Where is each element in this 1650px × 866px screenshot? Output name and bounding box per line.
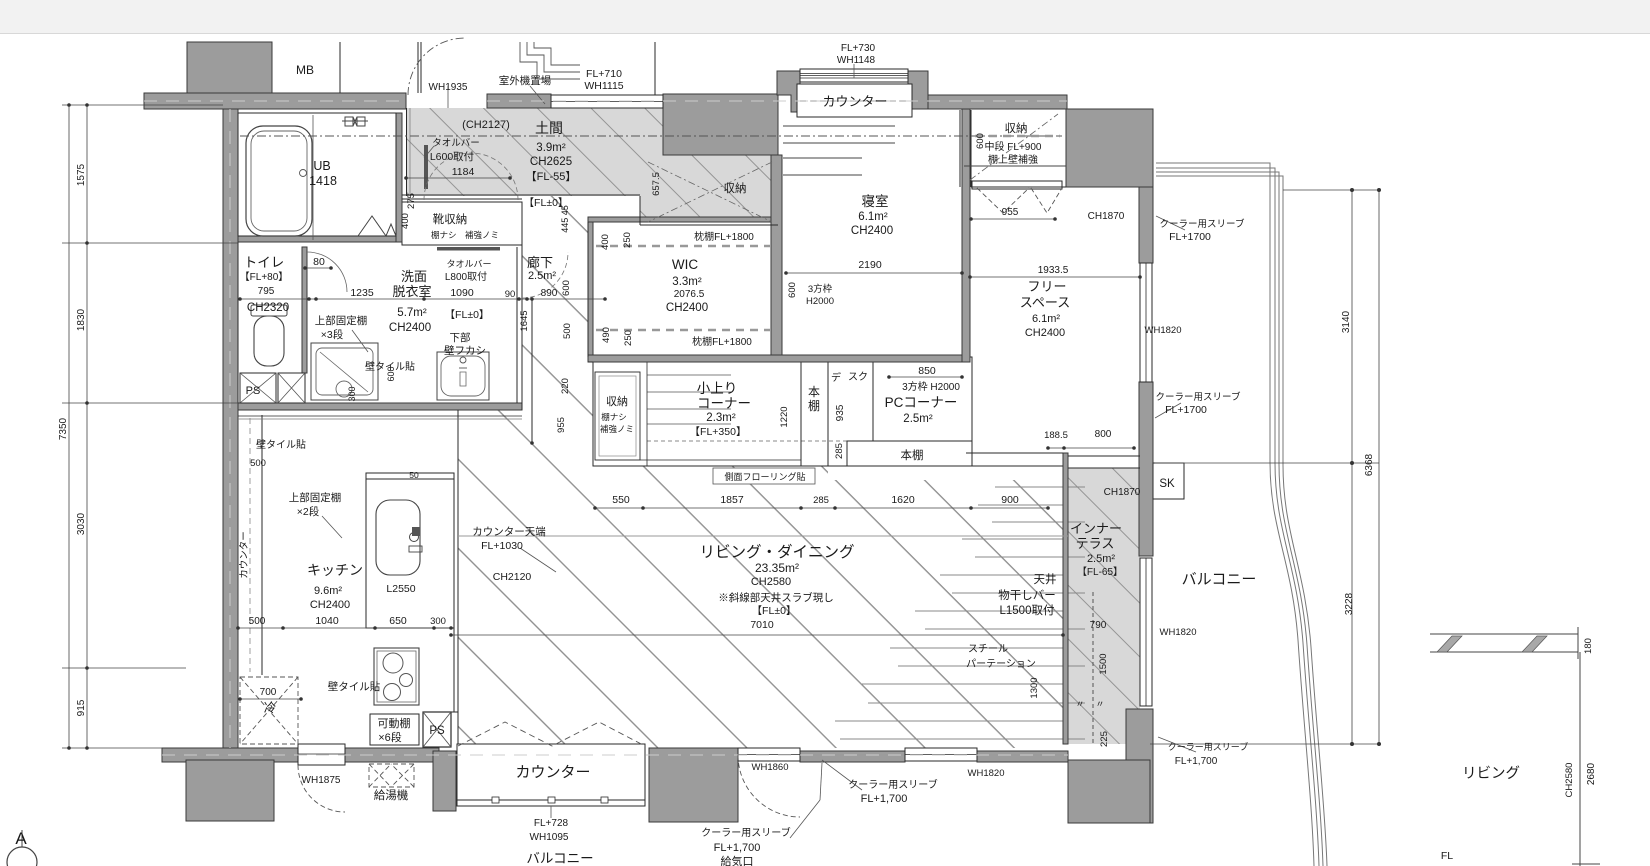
- svg-text:パーテーション: パーテーション: [966, 658, 1036, 670]
- UB room: [238, 113, 396, 236]
- svg-text:400: 400: [400, 213, 411, 229]
- SK box: [1153, 463, 1184, 499]
- svg-text:1040: 1040: [315, 615, 339, 627]
- svg-text:6.1m²: 6.1m²: [1032, 313, 1060, 325]
- kitchen sink: [376, 500, 420, 575]
- svg-text:テラス: テラス: [1076, 536, 1115, 551]
- counter jamb left: [777, 71, 800, 112]
- freespace bottom: [966, 452, 1063, 454]
- svg-text:下部: 下部: [450, 331, 471, 344]
- svg-text:285: 285: [813, 495, 829, 506]
- svg-text:890: 890: [541, 288, 558, 299]
- bedroom right wall: [962, 109, 970, 362]
- svg-text:(CH2127): (CH2127): [462, 119, 510, 131]
- svg-text:3方枠 H2000: 3方枠 H2000: [902, 380, 960, 393]
- kitchen bottom return: [444, 711, 458, 713]
- stove: [374, 648, 419, 705]
- 7010: [451, 634, 1063, 636]
- svg-text:土間: 土間: [535, 120, 563, 136]
- svg-text:90: 90: [505, 289, 516, 300]
- svg-text:445 45: 445 45: [560, 205, 570, 233]
- WALLS: [144, 42, 1153, 823]
- svg-text:1300: 1300: [1029, 677, 1040, 698]
- svg-text:タオルバー: タオルバー: [446, 259, 491, 269]
- svg-text:バルコニー: バルコニー: [526, 851, 593, 866]
- svg-text:廊下: 廊下: [527, 255, 553, 270]
- bedroom closet walls: [959, 110, 961, 187]
- fridge dashed: [240, 677, 298, 744]
- svg-text:壁タイル貼: 壁タイル貼: [256, 438, 306, 451]
- svg-text:180: 180: [1583, 638, 1594, 654]
- svg-text:250: 250: [622, 232, 633, 248]
- WIC walls: [588, 217, 778, 222]
- freespace bottom walls: [1063, 453, 1068, 744]
- DASHED LINES: [240, 135, 1062, 137]
- svg-text:小上り: 小上り: [697, 381, 738, 396]
- svg-text:WIC: WIC: [672, 257, 698, 272]
- svg-text:WH1820: WH1820: [968, 768, 1005, 779]
- svg-text:1418: 1418: [309, 174, 337, 188]
- top 1184: [406, 177, 510, 179]
- 80: [305, 267, 331, 269]
- svg-text:600: 600: [561, 280, 572, 296]
- svg-text:SK: SK: [1159, 478, 1175, 490]
- svg-text:80: 80: [313, 256, 325, 268]
- svg-text:棚: 棚: [808, 398, 820, 413]
- svg-text:×3段: ×3段: [321, 328, 344, 341]
- svg-text:6.1m²: 6.1m²: [858, 211, 888, 223]
- svg-text:デ: デ: [831, 371, 841, 384]
- svg-text:クーラー用スリーブ: クーラー用スリーブ: [848, 778, 937, 791]
- svg-text:FL+710: FL+710: [586, 68, 622, 80]
- svg-text:900: 900: [1001, 494, 1019, 506]
- svg-text:600: 600: [787, 282, 798, 298]
- washroom/toilet outer: [237, 242, 239, 403]
- svg-text:壁タイル貼: 壁タイル貼: [328, 680, 381, 693]
- svg-text:L1500取付: L1500取付: [1000, 604, 1055, 617]
- svg-text:CH2625: CH2625: [530, 156, 572, 168]
- HATCH: [406, 108, 778, 225]
- svg-text:脱衣室: 脱衣室: [392, 284, 431, 299]
- svg-text:上部固定棚: 上部固定棚: [289, 491, 342, 504]
- svg-text:3.3m²: 3.3m²: [672, 276, 702, 288]
- UB door corner: [358, 216, 396, 236]
- PS box bottom: [423, 712, 451, 747]
- svg-text:クーラー用スリーブ: クーラー用スリーブ: [1156, 391, 1241, 403]
- svg-text:物干しバー: 物干しバー: [998, 588, 1056, 602]
- mid row: [595, 507, 1048, 509]
- svg-text:洗面: 洗面: [401, 269, 427, 284]
- svg-text:400: 400: [600, 234, 611, 250]
- svg-text:H2000: H2000: [806, 296, 834, 307]
- svg-text:WH1095: WH1095: [530, 832, 569, 843]
- svg-text:FL+1700: FL+1700: [1165, 404, 1207, 416]
- doma bottom lines: [402, 194, 640, 196]
- svg-text:靴収納: 靴収納: [433, 212, 468, 226]
- svg-text:カウンター: カウンター: [239, 531, 250, 579]
- svg-text:×6段: ×6段: [378, 730, 402, 744]
- svg-text:490: 490: [601, 327, 612, 343]
- svg-text:955: 955: [556, 417, 567, 433]
- svg-text:L600取付: L600取付: [430, 150, 474, 163]
- PS boxes left: [240, 373, 276, 403]
- svg-text:本棚: 本棚: [901, 448, 924, 462]
- svg-text:2190: 2190: [858, 259, 882, 271]
- svg-text:3140: 3140: [1341, 310, 1352, 333]
- svg-text:寝室: 寝室: [862, 193, 889, 209]
- svg-text:1184: 1184: [452, 166, 475, 178]
- svg-text:スク: スク: [848, 371, 868, 383]
- svg-text:カウンター: カウンター: [822, 94, 887, 109]
- kitchen counter back edge: [238, 415, 522, 417]
- 188.5 800: [1048, 447, 1134, 449]
- south bands right: [800, 751, 905, 762]
- genkan storage bottom: [640, 224, 778, 226]
- svg-text:WH1115: WH1115: [584, 80, 623, 92]
- svg-text:300: 300: [347, 386, 357, 401]
- left outer wall: [223, 109, 238, 751]
- svg-text:FL+1030: FL+1030: [481, 540, 523, 552]
- svg-text:CH2580: CH2580: [751, 576, 791, 588]
- block top-left: [187, 42, 272, 93]
- svg-text:1575: 1575: [76, 163, 87, 186]
- svg-text:275: 275: [406, 193, 417, 209]
- svg-text:1933.5: 1933.5: [1038, 265, 1069, 276]
- svg-text:インナー: インナー: [1070, 521, 1122, 536]
- right wall block bottom: [1126, 709, 1153, 823]
- svg-text:WH1860: WH1860: [752, 762, 789, 773]
- svg-text:PS: PS: [429, 725, 445, 737]
- svg-text:3.9m²: 3.9m²: [536, 142, 566, 154]
- svg-text:A: A: [15, 829, 27, 848]
- svg-text:657.5: 657.5: [651, 172, 662, 196]
- svg-text:220: 220: [560, 378, 571, 394]
- svg-text:※斜線部天井スラブ現し: ※斜線部天井スラブ現し: [718, 591, 834, 604]
- terrace drying bar dashed: [1092, 592, 1094, 746]
- block south right: [1068, 760, 1150, 823]
- svg-text:795: 795: [258, 286, 275, 297]
- block B2 genkan: [663, 94, 778, 155]
- svg-text:スペース: スペース: [1020, 295, 1070, 310]
- svg-text:CH2120: CH2120: [493, 571, 532, 583]
- svg-text:中段 FL+900: 中段 FL+900: [985, 140, 1042, 153]
- hall wall (washroom right): [516, 247, 518, 403]
- svg-text:冷: 冷: [264, 701, 277, 715]
- svg-text:L800取付: L800取付: [445, 270, 487, 283]
- svg-text:1500: 1500: [1098, 653, 1109, 674]
- 955: [971, 218, 1055, 220]
- svg-text:250: 250: [623, 330, 634, 346]
- right wall seg1: [1139, 187, 1153, 263]
- svg-text:FL+1,700: FL+1,700: [714, 842, 761, 854]
- svg-text:スチール: スチール: [968, 643, 1008, 655]
- svg-text:フリー: フリー: [1027, 279, 1066, 294]
- svg-text:6368: 6368: [1364, 453, 1375, 476]
- svg-text:FL+1,700: FL+1,700: [1175, 756, 1218, 767]
- svg-text:CH1870: CH1870: [1088, 211, 1125, 222]
- right wall seg2: [1139, 382, 1153, 556]
- svg-text:650: 650: [389, 615, 407, 627]
- svg-text:〃: 〃: [1095, 699, 1104, 709]
- svg-text:23.35m²: 23.35m²: [755, 561, 799, 575]
- svg-text:1620: 1620: [891, 494, 915, 506]
- bottom band pieces: [162, 748, 298, 762]
- svg-text:500: 500: [249, 616, 266, 627]
- svg-text:CH2400: CH2400: [851, 225, 893, 237]
- BALCONY EDGE right: [1156, 163, 1327, 866]
- kitchen counter lines: [366, 473, 454, 628]
- svg-text:クーラー用スリーブ: クーラー用スリーブ: [1168, 741, 1248, 752]
- svg-text:WH1148: WH1148: [837, 55, 876, 66]
- bedroom counter box: [797, 84, 912, 117]
- 1933.5: [970, 276, 1140, 278]
- doma gray: [406, 108, 778, 225]
- closet bifold Vs: [977, 188, 1062, 213]
- svg-text:収納: 収納: [724, 182, 747, 195]
- svg-text:棚ナシ: 棚ナシ: [601, 412, 627, 422]
- svg-text:棚上壁補強: 棚上壁補強: [988, 153, 1038, 166]
- svg-text:FL: FL: [1441, 850, 1453, 862]
- svg-text:WH1935: WH1935: [429, 82, 468, 93]
- svg-text:クーラー用スリーブ: クーラー用スリーブ: [1160, 218, 1245, 230]
- svg-text:550: 550: [612, 494, 630, 506]
- svg-text:1857: 1857: [720, 494, 744, 506]
- svg-text:CH2400: CH2400: [666, 302, 708, 314]
- closet diag dashdot: [648, 114, 1058, 222]
- svg-text:2680: 2680: [1586, 762, 1597, 785]
- block south middle: [649, 748, 738, 822]
- shower icon: [342, 117, 368, 126]
- svg-text:棚ナシ 補強ノミ: 棚ナシ 補強ノミ: [431, 230, 499, 240]
- svg-text:CH2400: CH2400: [310, 599, 350, 611]
- svg-text:2.5m²: 2.5m²: [528, 270, 556, 282]
- svg-text:【FL-65】: 【FL-65】: [1077, 566, 1123, 578]
- svg-text:7010: 7010: [750, 619, 774, 631]
- svg-text:〃: 〃: [1075, 699, 1084, 709]
- svg-text:600: 600: [975, 133, 986, 149]
- svg-text:本: 本: [808, 385, 820, 399]
- svg-text:【FL±0】: 【FL±0】: [445, 309, 490, 321]
- bottom-left block: [186, 760, 274, 821]
- svg-text:給気口: 給気口: [721, 854, 754, 866]
- svg-text:600: 600: [386, 366, 396, 381]
- svg-text:FL+730: FL+730: [841, 43, 876, 54]
- svg-text:壁フカシ: 壁フカシ: [444, 344, 486, 357]
- svg-text:1830: 1830: [76, 308, 87, 331]
- washer pan: [311, 343, 378, 400]
- toilet door arc: [307, 252, 347, 292]
- towel bar mark: [424, 145, 428, 189]
- svg-text:1235: 1235: [350, 287, 374, 299]
- svg-text:FL+1,700: FL+1,700: [861, 793, 908, 805]
- svg-text:コーナー: コーナー: [697, 396, 751, 411]
- svg-text:UB: UB: [313, 159, 330, 173]
- svg-text:PS: PS: [246, 385, 261, 397]
- svg-text:225: 225: [1099, 731, 1110, 747]
- DIMENSION LINES: [62, 105, 1379, 748]
- svg-text:9.6m²: 9.6m²: [314, 585, 342, 597]
- svg-text:CH2580: CH2580: [1564, 763, 1575, 798]
- svg-text:2076.5: 2076.5: [674, 289, 705, 300]
- MB area verticals: [339, 42, 341, 93]
- svg-text:300: 300: [430, 616, 446, 627]
- svg-text:キッチン: キッチン: [307, 562, 363, 578]
- svg-text:収納: 収納: [606, 395, 628, 408]
- UB right wall: [396, 113, 402, 242]
- top band right: [928, 95, 1067, 109]
- svg-text:【FL+350】: 【FL+350】: [690, 426, 747, 438]
- 700: [240, 698, 301, 700]
- svg-text:リビング: リビング: [1462, 765, 1520, 782]
- toilet row: [238, 298, 605, 300]
- washroom bottom wall: [238, 403, 522, 410]
- svg-text:50: 50: [409, 470, 419, 480]
- svg-text:枕棚FL+1800: 枕棚FL+1800: [692, 335, 752, 348]
- svg-text:850: 850: [918, 365, 936, 377]
- shoe closet door arcs dashed: [424, 153, 471, 200]
- toilet right wall: [302, 247, 307, 373]
- svg-text:PCコーナー: PCコーナー: [885, 395, 958, 410]
- counter jamb right: [908, 71, 928, 109]
- svg-text:補強ノミ: 補強ノミ: [600, 424, 634, 434]
- svg-text:FL+1700: FL+1700: [1169, 231, 1211, 243]
- svg-text:2.3m²: 2.3m²: [706, 412, 736, 424]
- bathtub: [246, 126, 312, 236]
- svg-text:CH2320: CH2320: [247, 302, 289, 314]
- svg-text:1220: 1220: [779, 406, 790, 427]
- THIN STRUCTURE LINES: [238, 42, 778, 410]
- svg-text:500: 500: [562, 323, 573, 339]
- inner terrace gray: [1068, 468, 1140, 744]
- svg-text:給湯機: 給湯機: [374, 788, 409, 802]
- svg-text:枕棚FL+1800: 枕棚FL+1800: [694, 230, 754, 243]
- svg-text:7350: 7350: [58, 417, 69, 440]
- towel bar washroom: [437, 247, 500, 251]
- svg-text:935: 935: [835, 404, 846, 421]
- toilet: [251, 305, 287, 316]
- water heater dashed: [369, 764, 414, 787]
- corner piece left of balcony counter: [433, 751, 456, 811]
- svg-text:WH1820: WH1820: [1160, 627, 1197, 638]
- svg-text:リビング・ダイニング: リビング・ダイニング: [699, 543, 854, 561]
- leader lines: [322, 64, 1196, 838]
- svg-text:3228: 3228: [1344, 592, 1355, 615]
- svg-text:室外機置場: 室外機置場: [499, 74, 552, 87]
- svg-text:【FL±0】: 【FL±0】: [752, 605, 797, 617]
- svg-text:CH1870: CH1870: [1104, 487, 1141, 498]
- sliding door zigzag balcony: [458, 722, 645, 746]
- svg-text:バルコニー: バルコニー: [1182, 571, 1257, 588]
- corridor left line: [587, 222, 589, 357]
- right big dims: [1351, 190, 1353, 744]
- svg-text:カウンター天端: カウンター天端: [472, 525, 546, 538]
- svg-text:1090: 1090: [450, 287, 474, 299]
- block C top-right: [1066, 109, 1153, 187]
- svg-text:可動棚: 可動棚: [378, 716, 411, 730]
- svg-text:側面フローリング貼: 側面フローリング貼: [724, 471, 805, 482]
- 2190: [786, 272, 962, 274]
- compass: [7, 847, 37, 866]
- svg-text:CH2400: CH2400: [389, 322, 431, 334]
- svg-text:MB: MB: [296, 63, 314, 77]
- bedroom bed lines: [783, 126, 895, 175]
- svg-text:500: 500: [250, 458, 266, 469]
- svg-text:クーラー用スリーブ: クーラー用スリーブ: [701, 826, 790, 839]
- svg-text:790: 790: [1090, 620, 1107, 631]
- svg-text:×2段: ×2段: [297, 505, 320, 518]
- svg-text:収納: 収納: [1005, 122, 1028, 135]
- balcony counter box: [457, 744, 645, 806]
- svg-text:188.5: 188.5: [1044, 430, 1068, 441]
- svg-text:トイレ: トイレ: [244, 255, 285, 270]
- svg-text:3030: 3030: [76, 512, 87, 535]
- svg-text:上部固定棚: 上部固定棚: [315, 314, 368, 327]
- rotated labels: [58, 133, 1597, 797]
- svg-text:700: 700: [260, 687, 277, 698]
- svg-text:915: 915: [76, 699, 87, 716]
- svg-text:2.5m²: 2.5m²: [1087, 553, 1115, 565]
- wall center dash lines: [144, 101, 1068, 755]
- svg-text:3方枠: 3方枠: [808, 283, 833, 295]
- svg-text:【FL-55】: 【FL-55】: [526, 170, 577, 183]
- svg-text:FL+728: FL+728: [534, 818, 569, 829]
- svg-text:800: 800: [1095, 429, 1112, 440]
- svg-text:L2550: L2550: [386, 583, 415, 595]
- 850: [889, 376, 962, 378]
- UB/washroom wall: [238, 236, 402, 242]
- svg-text:285: 285: [834, 443, 845, 459]
- kitchen row: [238, 627, 451, 629]
- movable shelf box: [370, 714, 419, 745]
- svg-text:5.7m²: 5.7m²: [397, 307, 427, 319]
- band between door and window: [487, 94, 551, 108]
- svg-text:【FL+80】: 【FL+80】: [240, 271, 289, 283]
- white boxes over hatch: [402, 202, 522, 245]
- svg-text:WH1820: WH1820: [1145, 325, 1182, 336]
- svg-text:カウンター: カウンター: [515, 764, 590, 781]
- svg-text:天井: 天井: [1034, 572, 1057, 586]
- svg-text:955: 955: [1002, 207, 1019, 218]
- top band left: [144, 93, 406, 109]
- svg-text:タオルバー: タオルバー: [432, 138, 480, 149]
- svg-text:1645: 1645: [519, 310, 530, 331]
- svg-text:CH2400: CH2400: [1025, 327, 1065, 339]
- WINDOWS: [298, 69, 1152, 765]
- svg-text:2.5m²: 2.5m²: [903, 413, 933, 425]
- door arcs: [408, 38, 465, 95]
- ceiling step lines in living: [835, 487, 1085, 739]
- svg-text:WH1875: WH1875: [302, 775, 341, 786]
- right section detail: [1430, 634, 1578, 652]
- washbasin: [437, 352, 489, 400]
